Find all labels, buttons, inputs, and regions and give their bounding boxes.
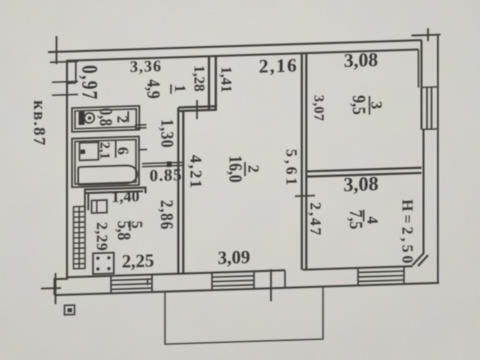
svg-text:1,30: 1,30: [157, 119, 177, 149]
svg-text:кв.87: кв.87: [30, 100, 49, 147]
svg-text:2,16: 2,16: [259, 55, 298, 77]
svg-text:7,5: 7,5: [346, 210, 367, 230]
svg-text:3,08: 3,08: [344, 173, 379, 196]
svg-text:2,47: 2,47: [307, 202, 324, 238]
svg-text:1,28: 1,28: [191, 65, 207, 92]
svg-text:1,40: 1,40: [112, 188, 140, 206]
svg-text:0,97: 0,97: [77, 65, 102, 102]
svg-text:2,25: 2,25: [122, 251, 154, 272]
svg-text:4,9: 4,9: [143, 79, 164, 99]
svg-text:1: 1: [171, 84, 188, 92]
svg-text:5,61: 5,61: [283, 149, 300, 189]
svg-text:2: 2: [245, 165, 262, 174]
svg-text:2,86: 2,86: [157, 200, 178, 231]
svg-text:0.85: 0.85: [150, 165, 183, 185]
svg-text:H=2,50: H=2,50: [399, 199, 416, 267]
svg-text:16,0: 16,0: [225, 155, 246, 183]
svg-text:3,09: 3,09: [218, 248, 250, 269]
svg-text:3,07: 3,07: [311, 95, 326, 122]
svg-text:3: 3: [368, 101, 385, 110]
svg-text:4,21: 4,21: [187, 154, 206, 189]
svg-text:5,8: 5,8: [113, 220, 134, 240]
svg-text:3,36: 3,36: [130, 58, 162, 76]
svg-text:6: 6: [114, 147, 131, 156]
svg-text:9,5: 9,5: [349, 95, 370, 115]
svg-text:1,41: 1,41: [218, 66, 234, 93]
svg-text:2,1: 2,1: [97, 142, 112, 160]
svg-text:0,8: 0,8: [96, 108, 117, 127]
svg-text:2,29: 2,29: [93, 222, 110, 252]
svg-text:3,08: 3,08: [344, 50, 378, 72]
